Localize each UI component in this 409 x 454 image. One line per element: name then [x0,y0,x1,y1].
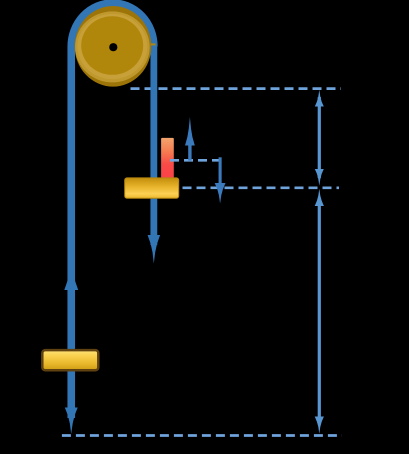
wire rope over pulley [71,3,154,418]
arrowhead rope left up [64,263,78,290]
pulley axle dot [109,43,117,51]
mass M2 right [125,178,179,198]
pulley highlight ring [75,11,150,82]
arrow small down [215,157,226,203]
arrowhead rope right down [148,235,161,264]
mass M1 left [42,350,98,370]
dashed line middle [183,186,340,189]
pulley tick [151,43,156,45]
pulley wheel rim [75,6,152,87]
arrow measure h double [315,90,324,186]
dashed line bottom [62,434,342,437]
pulley highlight ring inner [78,14,148,79]
pulley body [81,16,143,75]
dashed line bar level [170,159,219,162]
red bar [161,138,174,178]
wire rope right side [150,44,157,245]
arrow small up [185,117,195,161]
arrow measure H double [315,189,324,434]
dashed line top [131,87,342,90]
arrowhead rope left down [65,408,78,435]
